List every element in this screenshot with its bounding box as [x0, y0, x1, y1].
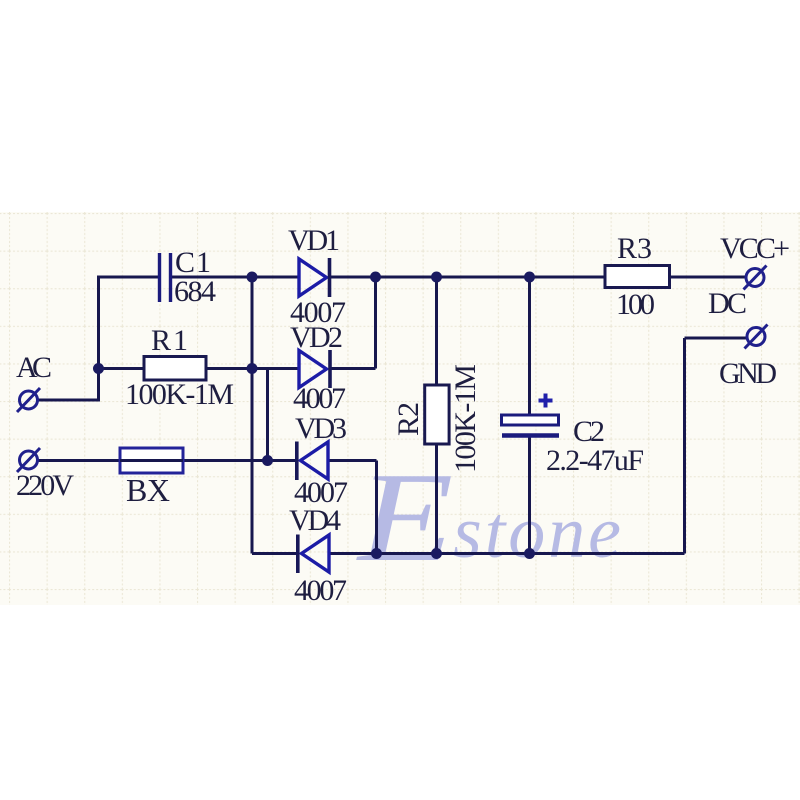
capacitor C2 [502, 394, 560, 436]
resistor R2 [425, 385, 449, 444]
diode VD4 [298, 535, 329, 574]
svg-text:100: 100 [616, 288, 655, 321]
svg-text:100K-1M: 100K-1M [449, 364, 482, 473]
node C1/VD1 junction [247, 272, 258, 283]
wire top rail [330, 276, 605, 279]
terminal VCC+ [744, 266, 767, 290]
svg-text:E: E [356, 446, 454, 588]
svg-text:AC: AC [16, 351, 52, 384]
svg-text:100K-1M: 100K-1M [125, 378, 234, 411]
wire C1 left lead [97, 276, 158, 279]
wire AC terminal lead [39, 399, 101, 402]
svg-text:2.2-47uF: 2.2-47uF [546, 444, 644, 477]
svg-text:DC: DC [708, 287, 747, 320]
terminal GND [745, 325, 768, 349]
wire R1 left lead [99, 367, 145, 370]
wire R2 top lead [435, 277, 438, 386]
wire VD2 to top rail vertical [374, 277, 377, 369]
resistor R3 [605, 266, 670, 288]
svg-text:VD2: VD2 [290, 321, 343, 354]
svg-text:4007: 4007 [294, 574, 347, 607]
wire BX to VD3 [183, 459, 298, 462]
svg-text:GND: GND [719, 357, 777, 390]
svg-text:R3: R3 [617, 232, 652, 265]
wire C2 bottom lead [528, 436, 531, 554]
node BX/VD3 junction [262, 455, 273, 466]
wire R2 bottom lead [435, 444, 438, 554]
terminal 220V [17, 448, 40, 472]
wire 220V lead [39, 459, 121, 462]
node VD3/VD4 junction [371, 548, 382, 559]
node R1/VD2 junction [247, 363, 258, 374]
wire VD1 anode lead [252, 276, 299, 279]
diode VD3 [297, 442, 328, 481]
wire VD2 cathode lead [330, 367, 376, 370]
svg-text:VD1: VD1 [288, 224, 340, 257]
node VD1 cathode junction [370, 272, 381, 283]
wire VD3 to bottom rail vertical [375, 461, 378, 554]
node R2 bottom junction [431, 548, 442, 559]
wire R1 right lead [206, 367, 252, 370]
wire VD2 anode lead [252, 367, 299, 370]
wire bottom rail [329, 552, 685, 555]
diode VD2 [299, 350, 330, 388]
svg-text:VD3: VD3 [295, 412, 347, 445]
wire vertical B [266, 369, 269, 461]
wire left vertical [97, 277, 100, 400]
svg-text:R1: R1 [151, 324, 188, 357]
diode VD1 [299, 258, 330, 297]
node R2 top junction [431, 272, 442, 283]
node AC/R1 junction [93, 363, 104, 374]
svg-text:220V: 220V [16, 469, 74, 502]
wire VD3 right lead [328, 459, 377, 462]
fuse BX [120, 448, 183, 473]
wire GND lead [685, 337, 747, 340]
svg-text:4007: 4007 [293, 382, 346, 415]
watermark Estone [356, 446, 621, 588]
svg-text:R2: R2 [392, 402, 425, 436]
wire C2 top lead [528, 277, 531, 416]
node C2 bottom junction [524, 548, 535, 559]
svg-text:stone: stone [453, 492, 621, 574]
node junction dots [93, 272, 535, 560]
wire GND vertical [683, 338, 686, 554]
svg-text:684: 684 [174, 275, 216, 308]
svg-text:VD4: VD4 [289, 504, 341, 537]
node C2 top junction [524, 272, 535, 283]
wire vertical A [251, 277, 254, 554]
svg-text:BX: BX [126, 472, 170, 508]
resistor R1 [144, 357, 206, 381]
wire C1 right lead [170, 276, 252, 279]
capacitor C1 [160, 253, 171, 302]
svg-text:VCC+: VCC+ [720, 232, 790, 265]
terminal AC [17, 388, 40, 412]
wire R3 right lead [670, 276, 746, 279]
wire VD4 left lead [252, 552, 297, 555]
